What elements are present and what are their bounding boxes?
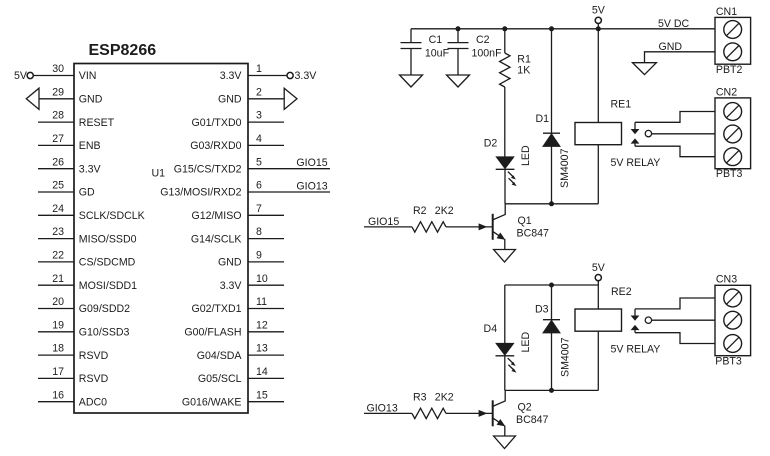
- svg-text:MISO/SSD0: MISO/SSD0: [79, 233, 137, 245]
- Q1 label: [517, 215, 549, 239]
- svg-text:14: 14: [256, 366, 268, 378]
- wire R2 to Q1 base: [446, 226, 492, 228]
- CN3 terminal 1: [724, 289, 742, 307]
- svg-text:10uF: 10uF: [425, 47, 450, 59]
- connector CN2 body: [715, 98, 751, 169]
- svg-text:CN1: CN1: [716, 6, 737, 18]
- wire pin 8: [248, 238, 284, 240]
- CN3 terminal 3: [724, 335, 742, 353]
- RE2 pole circle: [645, 317, 651, 323]
- connector CN1 body: [715, 17, 751, 64]
- svg-text:19: 19: [52, 319, 64, 331]
- svg-text:GND: GND: [659, 41, 683, 53]
- wire RE2 NO to CN3-3: [635, 333, 715, 344]
- wire pin 7: [248, 214, 284, 216]
- svg-text:GND: GND: [218, 94, 242, 106]
- wire RE1 NC to CN2-1: [635, 112, 715, 123]
- wire pin 15: [248, 401, 284, 403]
- wire pin 20: [38, 308, 74, 310]
- diode D3 SM4007: [543, 285, 560, 390]
- svg-text:9: 9: [256, 250, 262, 262]
- wire RE2 NC to CN3-1: [635, 298, 715, 309]
- svg-text:PBT2: PBT2: [716, 64, 743, 76]
- junction C2/rail: [456, 26, 461, 31]
- CN1 terminal 1: [724, 21, 742, 39]
- R3 value label: [413, 391, 454, 403]
- svg-text:CN3: CN3: [716, 274, 737, 286]
- wire RE2 coil to collector junction: [597, 331, 599, 390]
- svg-text:12: 12: [256, 319, 268, 331]
- wire pin 10: [248, 284, 284, 286]
- wire 5V rail top: [411, 28, 715, 30]
- wire pin 12: [248, 331, 284, 333]
- svg-text:G14/SCLK: G14/SCLK: [191, 233, 242, 245]
- svg-text:4: 4: [256, 133, 262, 145]
- resistor R3: [412, 408, 446, 418]
- svg-text:ENB: ENB: [79, 140, 101, 152]
- svg-text:MOSI/SDD1: MOSI/SDD1: [79, 280, 137, 292]
- net 3.3V at pin 1: [287, 70, 317, 82]
- svg-text:D2: D2: [484, 138, 498, 150]
- svg-text:CS/SDCMD: CS/SDCMD: [79, 257, 136, 269]
- wire R3 to Q2 base: [446, 412, 492, 414]
- svg-text:PBT3: PBT3: [716, 168, 743, 180]
- diode D1 SM4007: [543, 29, 560, 204]
- wire pin 1: [248, 75, 287, 77]
- ground symbol C2: [447, 75, 470, 87]
- svg-text:17: 17: [52, 366, 64, 378]
- wire pin 25: [38, 191, 74, 193]
- wire RE2 pole to CN3-2: [652, 319, 715, 321]
- svg-text:10: 10: [256, 273, 268, 285]
- wire pin 17: [38, 377, 74, 379]
- junction D3/bottom rail: [549, 283, 554, 288]
- wire pin 26: [38, 168, 74, 170]
- ground symbol Q2: [494, 436, 516, 449]
- svg-text:G12/MISO: G12/MISO: [191, 210, 241, 222]
- svg-text:RSVD: RSVD: [79, 350, 109, 362]
- wire pin 9: [248, 261, 284, 263]
- transistor Q2 BC847: [493, 390, 506, 436]
- capacitor C1: [401, 29, 422, 75]
- svg-text:LED: LED: [520, 145, 532, 166]
- wire GIO15 to R2: [364, 226, 412, 228]
- svg-text:ADC0: ADC0: [79, 396, 107, 408]
- svg-text:GND: GND: [79, 94, 103, 106]
- resistor R2: [412, 222, 446, 232]
- wire pin 22: [38, 261, 74, 263]
- svg-text:3.3V: 3.3V: [220, 280, 243, 292]
- svg-text:GND: GND: [218, 257, 242, 269]
- svg-text:C2: C2: [476, 34, 490, 46]
- svg-text:5V: 5V: [592, 262, 606, 274]
- svg-text:3.3V: 3.3V: [295, 70, 318, 82]
- wire RE1 coil to collector junction: [597, 145, 599, 204]
- svg-text:D3: D3: [535, 303, 549, 315]
- svg-text:C1: C1: [429, 34, 443, 46]
- svg-text:100nF: 100nF: [472, 47, 503, 59]
- svg-text:30: 30: [52, 63, 64, 75]
- junction RE1/rail: [596, 26, 601, 31]
- signal arrow into Q1 base: [479, 223, 488, 230]
- wire rail to LED D4: [504, 285, 506, 343]
- svg-text:G02/TXD1: G02/TXD1: [191, 303, 241, 315]
- LED D4 emission arrows: [508, 358, 517, 373]
- svg-text:5V RELAY: 5V RELAY: [611, 343, 661, 355]
- svg-text:1K: 1K: [517, 64, 530, 76]
- transistor Q1 BC847: [493, 204, 506, 250]
- wire pin 5: [248, 168, 330, 170]
- svg-text:3.3V: 3.3V: [79, 163, 102, 175]
- svg-text:21: 21: [52, 273, 64, 285]
- svg-text:RE2: RE2: [611, 286, 632, 298]
- svg-text:Q2: Q2: [518, 402, 532, 414]
- junction D1/rail: [549, 26, 554, 31]
- svg-text:5: 5: [256, 156, 262, 168]
- svg-text:27: 27: [52, 133, 64, 145]
- wire pin 4: [248, 144, 284, 146]
- ground symbol C1: [400, 75, 423, 87]
- LED D2 emission arrows: [508, 172, 517, 187]
- ground port arrow at pin 2: [284, 88, 297, 109]
- wire pin 16: [38, 401, 74, 403]
- svg-text:GIO13: GIO13: [296, 180, 327, 192]
- wire pin 3: [248, 121, 284, 123]
- RE1 pole circle: [645, 130, 651, 136]
- svg-text:BC847: BC847: [517, 228, 549, 240]
- wire pin 30: [33, 75, 74, 77]
- svg-text:26: 26: [52, 156, 64, 168]
- svg-text:G03/RXD0: G03/RXD0: [190, 140, 241, 152]
- resistor R1: [500, 29, 510, 157]
- wire pin 19: [38, 331, 74, 333]
- wire 5V rail bottom: [505, 284, 599, 286]
- relay coil RE1: [575, 123, 622, 145]
- relay coil RE2: [575, 309, 622, 331]
- svg-text:BC847: BC847: [516, 414, 548, 426]
- svg-text:CN2: CN2: [716, 86, 737, 98]
- svg-text:5V RELAY: 5V RELAY: [611, 157, 661, 169]
- wire rail to RE2 coil: [597, 285, 599, 309]
- svg-text:16: 16: [52, 389, 64, 401]
- svg-text:G05/SCL: G05/SCL: [198, 373, 242, 385]
- junction R1/rail: [502, 26, 507, 31]
- LED D4: [496, 343, 515, 390]
- wire GND to CN1: [645, 52, 716, 63]
- wire pin 29: [39, 98, 74, 100]
- svg-text:15: 15: [256, 389, 268, 401]
- power 5V symbol (top): [592, 5, 606, 29]
- svg-text:28: 28: [52, 110, 64, 122]
- svg-text:5V: 5V: [14, 70, 28, 82]
- svg-text:3.3V: 3.3V: [220, 70, 243, 82]
- svg-text:G10/SSD3: G10/SSD3: [79, 327, 130, 339]
- svg-text:25: 25: [52, 180, 64, 192]
- wire collector junction Q1: [505, 203, 598, 205]
- wire pin 11: [248, 308, 284, 310]
- CN2 terminal 1: [724, 103, 742, 121]
- wire pin 21: [38, 284, 74, 286]
- svg-text:6: 6: [256, 180, 262, 192]
- ground symbol near CN1: [633, 63, 657, 75]
- svg-text:29: 29: [52, 86, 64, 98]
- svg-text:PBT3: PBT3: [715, 355, 742, 367]
- svg-text:8: 8: [256, 226, 262, 238]
- RE1 contact arrows: [631, 122, 640, 146]
- CN2 terminal 3: [724, 148, 742, 166]
- svg-text:GIO15: GIO15: [296, 157, 327, 169]
- svg-text:U1: U1: [152, 167, 166, 179]
- wire pin 14: [248, 377, 284, 379]
- wire pin 27: [38, 144, 74, 146]
- svg-text:RESET: RESET: [79, 117, 115, 129]
- svg-text:R2: R2: [413, 205, 427, 217]
- svg-text:G13/MOSI/RXD2: G13/MOSI/RXD2: [160, 187, 241, 199]
- svg-text:G01/TXD0: G01/TXD0: [191, 117, 241, 129]
- junction D3/collector wire: [549, 388, 554, 393]
- C2 value label: [472, 34, 503, 59]
- svg-text:SM4007: SM4007: [560, 337, 572, 377]
- wire 5V rail to RE1 coil: [597, 29, 599, 123]
- wire pin 2: [248, 98, 284, 100]
- svg-text:18: 18: [52, 343, 64, 355]
- svg-text:RSVD: RSVD: [79, 373, 109, 385]
- svg-text:2K2: 2K2: [435, 391, 454, 403]
- svg-text:G016/WAKE: G016/WAKE: [182, 396, 242, 408]
- CN2 terminal 2: [724, 125, 742, 143]
- svg-text:5V DC: 5V DC: [658, 18, 690, 30]
- svg-text:3: 3: [256, 110, 262, 122]
- wire pin 13: [248, 354, 284, 356]
- junction D1/collector wire: [549, 201, 554, 206]
- signal arrow into Q2 base: [479, 410, 488, 417]
- svg-text:1: 1: [256, 63, 262, 75]
- svg-text:GD: GD: [79, 187, 95, 199]
- svg-text:G00/FLASH: G00/FLASH: [184, 327, 241, 339]
- C1 value label: [425, 34, 450, 59]
- svg-text:20: 20: [52, 296, 64, 308]
- svg-text:SM4007: SM4007: [559, 148, 571, 188]
- svg-text:G09/SDD2: G09/SDD2: [79, 303, 130, 315]
- svg-text:2K2: 2K2: [435, 205, 454, 217]
- power 5V symbol (bottom): [592, 262, 606, 285]
- svg-text:LED: LED: [520, 332, 532, 353]
- Q2 label: [516, 402, 548, 426]
- wire collector junction Q2: [505, 389, 599, 391]
- svg-text:11: 11: [256, 296, 267, 308]
- svg-text:R3: R3: [413, 391, 427, 403]
- net 5V at pin 30: [14, 70, 33, 82]
- svg-text:VIN: VIN: [79, 70, 97, 82]
- RE2 contact arrows: [631, 309, 640, 333]
- CN3 terminal 2: [724, 311, 742, 329]
- wire pin 28: [38, 121, 74, 123]
- svg-text:ESP8266: ESP8266: [89, 42, 157, 59]
- ground port arrow at pin 29: [26, 88, 39, 109]
- IC U1 ESP8266 body: [74, 64, 248, 414]
- wire RE1 NO to CN2-3: [635, 146, 715, 157]
- svg-text:23: 23: [52, 226, 64, 238]
- svg-text:2: 2: [256, 86, 262, 98]
- svg-text:13: 13: [256, 343, 268, 355]
- wire pin 18: [38, 354, 74, 356]
- LED D2: [496, 157, 515, 204]
- svg-text:RE1: RE1: [611, 99, 632, 111]
- svg-text:24: 24: [52, 203, 64, 215]
- wire pin 24: [38, 214, 74, 216]
- CN1 terminal 2: [724, 43, 742, 61]
- svg-text:D4: D4: [484, 323, 498, 335]
- capacitor C2: [448, 29, 469, 75]
- svg-text:D1: D1: [535, 113, 549, 125]
- wire pin 6: [248, 191, 330, 193]
- wire pin 23: [38, 238, 74, 240]
- svg-text:Q1: Q1: [518, 215, 532, 227]
- svg-text:5V: 5V: [592, 5, 606, 17]
- svg-text:G15/CS/TXD2: G15/CS/TXD2: [174, 163, 242, 175]
- wire RE1 pole to CN2-2: [652, 133, 715, 135]
- svg-text:G04/SDA: G04/SDA: [197, 350, 243, 362]
- svg-text:22: 22: [52, 250, 64, 262]
- svg-text:SCLK/SDCLK: SCLK/SDCLK: [79, 210, 145, 222]
- connector CN3 body: [715, 285, 751, 355]
- R1 value label: [517, 53, 531, 76]
- R2 value label: [413, 205, 454, 217]
- ground symbol Q1: [494, 250, 516, 263]
- wire GIO13 to R3: [364, 412, 412, 414]
- svg-text:7: 7: [256, 203, 262, 215]
